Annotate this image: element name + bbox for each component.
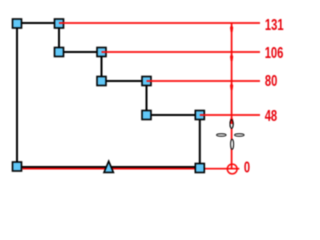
node V4 vertex handle [97, 48, 106, 57]
break symbol left dash [217, 134, 227, 137]
label 131 [265, 15, 284, 34]
label 80 [265, 71, 278, 90]
label 0 [244, 158, 250, 177]
node V6 vertex handle [142, 77, 151, 86]
node V9 bottom-right vertex handle [195, 164, 204, 173]
label 48 [265, 106, 278, 125]
wire: vertical ordinate dimension line [231, 23, 233, 169]
node V10 bottom-left vertex handle [13, 162, 22, 171]
wire: staircase profile polyline [17, 23, 200, 167]
break symbol upper ellipse [230, 120, 233, 129]
node V7 vertex handle [142, 111, 151, 120]
node V2 vertex handle [55, 19, 64, 28]
svg-text:0: 0 [244, 158, 250, 177]
svg-text:80: 80 [265, 71, 278, 90]
svg-text:48: 48 [265, 106, 278, 125]
wire: extension line at level 80 [147, 80, 261, 82]
node V1 top-left vertex handle [13, 19, 22, 28]
svg-text:131: 131 [265, 15, 284, 34]
origin datum circle [227, 164, 237, 174]
wire: extension line at level 48 [200, 114, 260, 116]
arrow at 106 [230, 53, 233, 61]
wire: X axis baseline [23, 168, 240, 170]
node V8 vertex handle [195, 111, 204, 120]
break symbol right dash [235, 134, 245, 137]
arrow at 80 [230, 82, 233, 90]
wire: extension line at level 131 [59, 22, 260, 24]
break symbol upper ellipse outline [230, 120, 233, 129]
node V3 vertex handle [55, 48, 64, 57]
arrow at 48 [230, 116, 233, 124]
break symbol lower ellipse [231, 139, 234, 149]
wire: extension line at level 106 [102, 51, 261, 53]
midpoint marker triangle [104, 161, 113, 172]
svg-text:106: 106 [265, 43, 284, 62]
node V5 vertex handle [97, 77, 106, 86]
label 106 [265, 43, 284, 62]
arrow at 131 [230, 24, 233, 32]
